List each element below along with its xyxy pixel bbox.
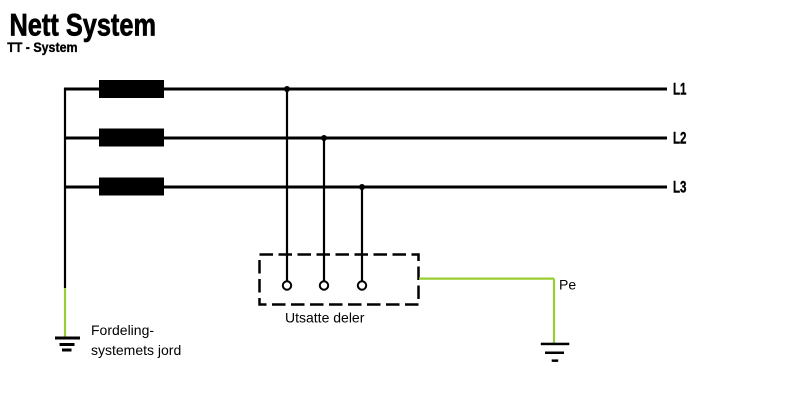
terminal circle 3 xyxy=(358,281,366,289)
svg-text:Fordeling-: Fordeling- xyxy=(91,322,154,338)
svg-text:L1: L1 xyxy=(673,80,686,99)
wire left vertical black xyxy=(64,88,66,288)
dashed box Utsatte deler (exposed parts) xyxy=(260,255,419,305)
wire L3 horizontal xyxy=(64,186,667,189)
svg-text:L2: L2 xyxy=(673,129,686,148)
wire green PE horizontal xyxy=(419,278,554,280)
terminal circle 2 xyxy=(320,281,328,289)
wire drop from L3 to terminal xyxy=(361,187,363,281)
node junction dot on L3 xyxy=(359,184,365,190)
wire left vertical green (earthing conductor) xyxy=(64,288,66,337)
svg-text:L3: L3 xyxy=(673,178,686,197)
ground symbol left (distribution system earth) xyxy=(55,337,80,352)
wire L2 horizontal xyxy=(64,137,667,140)
node junction dot on L1 xyxy=(284,86,290,92)
terminal circle 1 xyxy=(283,281,291,289)
winding W2 on L2 xyxy=(99,129,164,147)
svg-text:Utsatte deler: Utsatte deler xyxy=(285,310,365,326)
svg-text:systemets jord: systemets jord xyxy=(91,342,181,358)
winding W1 on L1 xyxy=(99,80,164,98)
wire drop from L2 to terminal xyxy=(323,138,325,281)
svg-text:Pe: Pe xyxy=(559,277,576,293)
svg-text:TT - System: TT - System xyxy=(7,40,77,56)
svg-text:Nett System: Nett System xyxy=(10,8,156,43)
winding W3 on L3 xyxy=(99,178,164,196)
wire drop from L1 to terminal xyxy=(286,89,288,281)
wire green PE vertical xyxy=(553,279,555,343)
ground symbol right (PE earth) xyxy=(541,343,570,362)
node junction dot on L2 xyxy=(321,135,327,141)
wire L1 horizontal xyxy=(64,88,667,91)
